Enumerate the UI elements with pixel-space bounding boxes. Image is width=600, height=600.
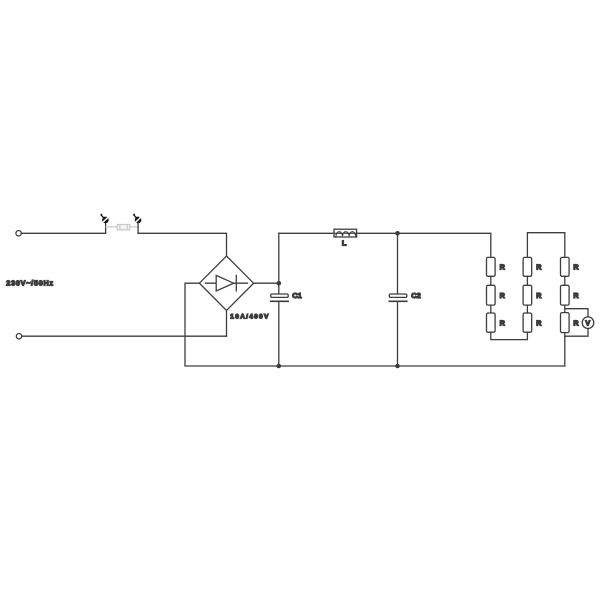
resistor R7 (col3 top) <box>561 257 570 276</box>
wire bridge right vertex to node DC+ <box>254 282 279 284</box>
wire col2 R5-R6 <box>526 305 528 313</box>
svg-text:R: R <box>536 319 542 328</box>
svg-text:R: R <box>536 263 542 272</box>
diode inside bridge <box>206 282 248 284</box>
resistor R9 (col3 bottom) <box>561 313 570 333</box>
wire L to column1 <box>357 233 491 257</box>
svg-text:R: R <box>536 291 542 300</box>
svg-text:L: L <box>342 238 347 247</box>
wire col3 R7-R8 <box>564 276 566 285</box>
wire fuse to bridge <box>138 233 226 256</box>
wire C1 branch vertical <box>278 233 280 293</box>
fuse F1 (light) <box>106 225 138 230</box>
fuse clip left <box>100 214 109 224</box>
node DC+ junction dot <box>277 281 282 286</box>
svg-text:230V~/50Hz: 230V~/50Hz <box>6 279 54 288</box>
wire col1 bottom to col2 bottom <box>491 332 528 339</box>
fuse clip right <box>133 214 142 224</box>
svg-text:R: R <box>573 291 579 300</box>
wire col1 R2-R3 <box>490 305 492 313</box>
svg-text:R: R <box>573 263 579 272</box>
svg-text:C2: C2 <box>411 291 420 300</box>
resistor R1 (col1 top) <box>487 257 496 276</box>
wire bridge bottom vertex to input <box>226 310 228 336</box>
wire clip-right drop <box>137 223 139 233</box>
wire top input left segment <box>21 232 105 234</box>
node C2-bottom junction dot <box>395 364 400 369</box>
wire col1 R1-R2 <box>490 276 492 285</box>
inductor L <box>334 229 357 237</box>
node C2-top junction dot <box>395 231 400 236</box>
wire col3 R9 to bottom rail <box>564 333 566 366</box>
resistor R3 (col1 bottom) <box>487 313 496 332</box>
terminal T1 top-left <box>16 231 21 236</box>
wire C2 branch vertical <box>397 233 399 293</box>
svg-text:R: R <box>500 319 506 328</box>
wire bottom input <box>22 335 227 337</box>
terminal T2 bottom-left <box>16 334 21 339</box>
svg-text:R: R <box>500 291 506 300</box>
wire clip-left drop <box>105 223 107 233</box>
resistor R5 (col2 mid) <box>523 285 532 305</box>
wire voltmeter branch bottom <box>565 329 588 337</box>
svg-text:R: R <box>500 263 506 272</box>
resistor R2 (col1 mid) <box>487 285 496 305</box>
capacitor C2 <box>389 294 407 297</box>
svg-text:V: V <box>585 319 590 328</box>
svg-text:10A/400V: 10A/400V <box>230 313 269 320</box>
bridge rectifier B1 diamond <box>199 256 253 310</box>
svg-text:C1: C1 <box>292 291 301 300</box>
resistor R4 (col2 top) <box>523 257 532 276</box>
resistor R8 (col3 mid) <box>561 285 570 305</box>
wire col3 R8-R9 <box>564 305 566 313</box>
wire top rail DC+ to L <box>279 232 334 234</box>
capacitor C1 (polarized) <box>271 294 289 297</box>
voltmeter V1 <box>582 317 594 329</box>
wire voltmeter branch top <box>565 309 588 317</box>
resistor R6 (col2 bottom) <box>523 313 532 332</box>
wire bridge left vertex to DC- rail <box>185 283 565 366</box>
wire col2 top to col3 top <box>527 233 564 258</box>
wire col2 R4-R5 <box>526 276 528 285</box>
node C1-bottom junction dot <box>277 364 282 369</box>
svg-text:R: R <box>573 319 579 328</box>
